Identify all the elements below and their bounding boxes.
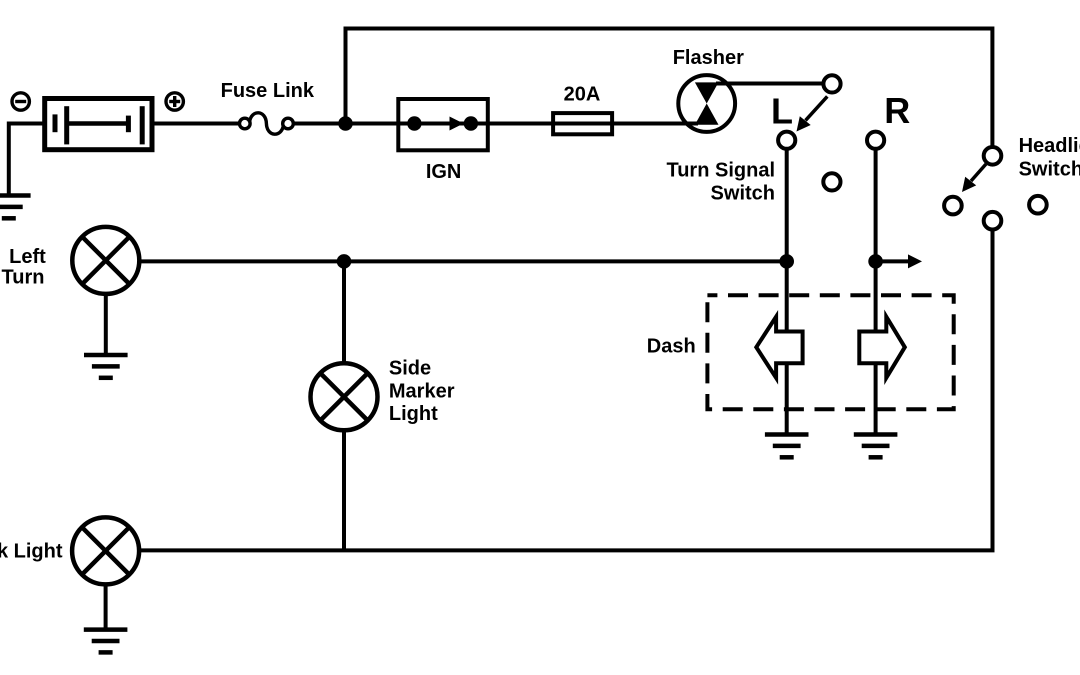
svg-text:Side: Side — [389, 358, 431, 380]
svg-text:Marker: Marker — [389, 381, 455, 403]
wire fuse link to flasher — [291, 122, 698, 126]
svg-text:Switch: Switch — [711, 183, 775, 205]
svg-text:Turn Signal: Turn Signal — [666, 160, 775, 182]
wire headlight switch down to park bus — [139, 230, 993, 551]
wire L contact down to left bus — [785, 149, 789, 262]
ground dash left — [765, 435, 809, 458]
turn signal switch pivot contact — [823, 75, 840, 92]
wire dash left indicator to ground — [785, 261, 789, 435]
wire battery negative to ground — [9, 124, 43, 197]
svg-text:Headlight: Headlight — [1019, 135, 1080, 157]
headlight switch contact park — [944, 197, 962, 215]
svg-text:Light: Light — [389, 403, 438, 425]
svg-text:Left: Left — [9, 246, 46, 268]
svg-text:20A: 20A — [564, 84, 601, 106]
turn signal switch wiper arrow — [806, 96, 828, 120]
ground park light — [84, 630, 128, 653]
svg-text:Dash: Dash — [647, 335, 696, 357]
svg-text:R: R — [884, 90, 910, 131]
svg-text:Fuse Link: Fuse Link — [221, 80, 315, 102]
headlight switch wiper arrow — [971, 164, 986, 181]
wire top rail — [346, 29, 993, 151]
battery B1 — [45, 99, 152, 150]
lamp left turn — [72, 227, 139, 294]
wire flasher to turn signal switch pivot — [716, 82, 824, 86]
junction node R — [868, 254, 883, 269]
junction node L — [779, 254, 794, 269]
wire dash right indicator to ground — [874, 261, 878, 435]
battery positive terminal symbol — [166, 93, 183, 110]
dash panel dashed box — [707, 295, 953, 409]
dash left turn indicator arrow — [756, 317, 802, 378]
svg-text:IGN: IGN — [426, 161, 462, 183]
wire R contact down to right node — [874, 149, 878, 262]
turn signal switch contact center off — [823, 173, 840, 190]
svg-text:Switch: Switch — [1019, 158, 1080, 180]
turn signal switch contact L — [778, 132, 795, 149]
ground battery — [0, 196, 31, 219]
turn signal switch contact R — [867, 132, 884, 149]
fuse 20A — [553, 113, 612, 134]
ground left turn — [84, 355, 128, 378]
ignition switch IGN — [398, 99, 488, 150]
dash right turn indicator arrow — [859, 317, 905, 378]
svg-text:Park Light: Park Light — [0, 541, 63, 563]
wire left turn bus — [139, 259, 787, 263]
headlight switch contact head — [1029, 196, 1047, 214]
svg-text:Flasher: Flasher — [673, 47, 744, 69]
fuse link F1 — [240, 113, 294, 134]
junction node main bus — [338, 116, 353, 131]
svg-text:Turn: Turn — [2, 267, 45, 289]
lamp park light — [72, 517, 139, 584]
svg-text:L: L — [771, 90, 793, 131]
flasher — [678, 75, 735, 132]
wire left turn lamp to ground — [104, 294, 108, 356]
wire side marker branch vertical — [342, 261, 346, 550]
wire arrow to right turn circuit — [876, 259, 910, 263]
battery negative terminal symbol — [12, 93, 29, 110]
junction node side marker branch — [337, 254, 352, 269]
headlight switch contact middle — [984, 212, 1002, 230]
headlight switch common contact — [984, 147, 1002, 165]
wire main bus battery to fuse link — [152, 122, 241, 126]
wire park lamp to ground — [104, 584, 108, 630]
ground dash right — [854, 435, 898, 458]
lamp side marker — [311, 363, 378, 430]
